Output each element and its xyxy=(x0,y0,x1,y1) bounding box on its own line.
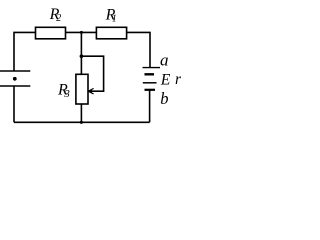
svg-text:b: b xyxy=(160,89,168,108)
svg-text:2: 2 xyxy=(56,13,61,24)
svg-text:E: E xyxy=(160,72,171,89)
svg-text:a: a xyxy=(160,50,169,69)
svg-text:1: 1 xyxy=(112,13,117,24)
svg-text:r: r xyxy=(175,71,182,88)
svg-text:3: 3 xyxy=(63,88,70,100)
